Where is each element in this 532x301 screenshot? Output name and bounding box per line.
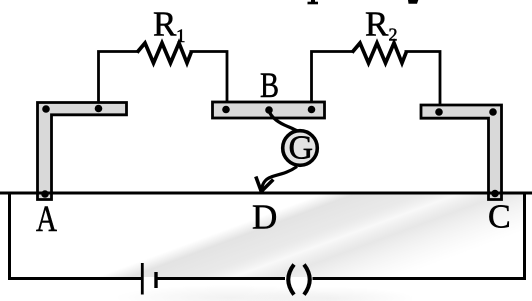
svg-text:G: G (289, 130, 314, 167)
svg-text:R: R (365, 5, 389, 44)
svg-text:C: C (488, 199, 511, 236)
svg-text:2: 2 (389, 25, 398, 45)
svg-text:R: R (153, 5, 177, 44)
svg-text:A: A (36, 199, 57, 240)
svg-text:D: D (252, 198, 277, 237)
svg-text:1: 1 (176, 26, 186, 47)
svg-text:B: B (260, 65, 279, 105)
